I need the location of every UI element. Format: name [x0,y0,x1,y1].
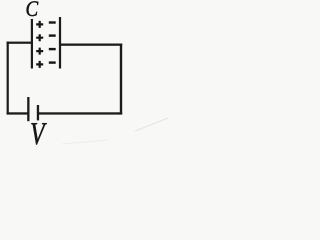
battery V label [31,123,47,144]
capacitor C right plate [59,17,61,69]
plus mark 1 [36,21,43,28]
scan noise streak [62,140,108,144]
battery V short plate [37,105,39,120]
battery V long plate [27,97,29,121]
minus mark 3 [49,48,56,50]
scan noise streak [135,118,168,131]
wire: bottom left to battery [7,112,29,114]
wire: left vertical [7,42,9,115]
minus mark 1 [49,21,56,23]
minus mark 4 [49,61,56,63]
plus mark 3 [36,48,43,55]
minus charge marks column [49,21,56,64]
capacitor C left plate [31,19,33,69]
wire: capacitor right plate to right [61,44,122,46]
wire: battery to bottom right [39,112,122,114]
minus mark 2 [49,34,56,36]
plus mark 2 [36,34,43,41]
plus charge marks column [36,21,43,68]
wire: capacitor left plate to left [7,42,31,44]
plus mark 4 [36,61,43,68]
capacitor C label [27,1,39,16]
wire: right vertical [120,44,122,115]
